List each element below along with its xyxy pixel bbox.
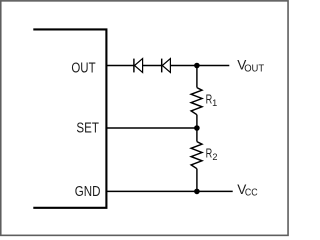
wire R1 to SET node (196, 115, 198, 142)
wire GND pin to VCC terminal (106, 190, 232, 192)
wire R2 to GND node (196, 169, 198, 192)
wire VOUT node down to R1 (196, 66, 198, 88)
wire SET pin (106, 127, 196, 129)
svg-text:OUT: OUT (71, 60, 95, 76)
svg-text:GND: GND (75, 184, 101, 200)
resistor R2 (191, 142, 202, 169)
svg-text:2: 2 (212, 152, 217, 162)
wire VOUT node to VOUT terminal (197, 65, 229, 67)
svg-text:SET: SET (76, 120, 99, 136)
resistor R1 (191, 88, 202, 115)
wire OUT pin to diode D1 (106, 65, 133, 67)
wire D1 to D2 (143, 65, 162, 67)
wire D2 to VOUT node (170, 65, 197, 67)
node SET junction (194, 125, 200, 131)
IC box (open on left) (33, 29, 106, 207)
diode D1 (134, 59, 143, 73)
svg-text:R: R (206, 146, 213, 161)
node VOUT junction (194, 63, 200, 69)
diode D2 (162, 59, 171, 73)
node GND junction (194, 189, 200, 195)
svg-text:1: 1 (212, 98, 217, 108)
